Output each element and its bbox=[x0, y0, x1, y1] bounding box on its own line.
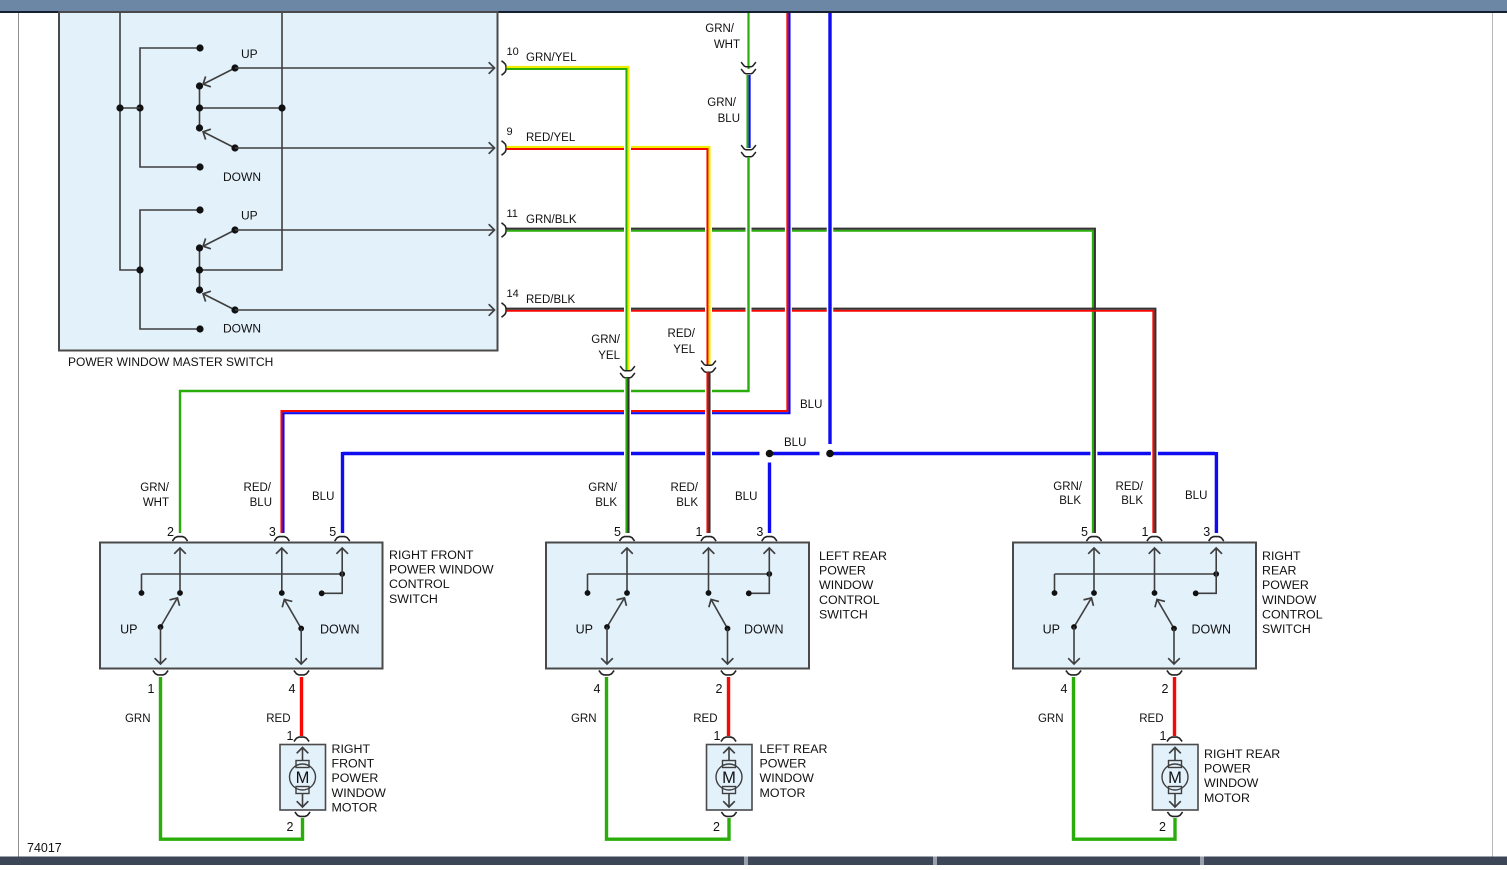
wire: internal bus bbox=[142, 573, 343, 575]
node: UP arm pivot bbox=[604, 624, 610, 630]
bottom status bar bbox=[0, 857, 1507, 866]
svg-text:UP: UP bbox=[241, 209, 258, 223]
svg-text:DOWN: DOWN bbox=[223, 170, 261, 184]
node: pin 1 pole bbox=[706, 590, 712, 596]
connector: top pin 1 bbox=[701, 537, 716, 541]
pin 9 connector on master switch bbox=[502, 141, 507, 155]
wire: UP pivot down arrow to bottom pin bbox=[160, 627, 162, 664]
bottom bar separator 3 bbox=[1200, 857, 1204, 866]
svg-text:WINDOW: WINDOW bbox=[819, 578, 874, 592]
motor symbol: armature circle M bbox=[716, 764, 742, 790]
wire RED from switch pin to right rear power window motor pin 1 bbox=[1173, 677, 1176, 736]
svg-text:14: 14 bbox=[507, 288, 519, 300]
wire: section 1 common to tall bus bbox=[200, 107, 282, 109]
svg-text:1: 1 bbox=[1142, 525, 1149, 539]
node: pin 5 pole bbox=[624, 590, 630, 596]
svg-text:POWER WINDOW: POWER WINDOW bbox=[389, 563, 494, 577]
connector: top pin 5 bbox=[1086, 537, 1101, 541]
svg-text:POWER: POWER bbox=[332, 771, 379, 785]
wire: section 2 pole column bbox=[199, 248, 201, 290]
node: bus left contact bbox=[139, 590, 145, 596]
node: pin 5 pole bbox=[1091, 590, 1097, 596]
right rear power window motor box bbox=[1153, 745, 1199, 811]
wire: pin 5 up arrow bbox=[341, 549, 343, 575]
svg-text:4: 4 bbox=[289, 682, 296, 696]
inline connector C200 on GRN/YEL wire bbox=[620, 366, 635, 371]
node: section 1 DOWN fixed contact bbox=[196, 163, 203, 170]
motor symbol: upper lead with arrow bbox=[728, 748, 730, 761]
switch arm DOWN bbox=[1157, 600, 1174, 629]
node: section 2 lower pole bbox=[196, 286, 203, 293]
svg-text:CONTROL: CONTROL bbox=[819, 593, 880, 607]
svg-text:GRN: GRN bbox=[571, 713, 597, 725]
wire RED/BLK from master pin 14 to right rear switch pin 1 bbox=[1151, 440, 1158, 470]
svg-text:UP: UP bbox=[576, 623, 593, 637]
connector: top pin 2 bbox=[172, 537, 187, 541]
node: BLU junction right bbox=[826, 450, 834, 458]
svg-text:UP: UP bbox=[120, 623, 137, 637]
node: section 2 common pole bbox=[196, 266, 203, 273]
wire GRN from switch pin to left rear power window motor pin 2 bbox=[607, 677, 730, 839]
svg-text:2: 2 bbox=[1162, 682, 1169, 696]
svg-text:RED/: RED/ bbox=[668, 328, 696, 340]
motor symbol: lower lead with arrow bbox=[302, 794, 304, 807]
svg-text:5: 5 bbox=[614, 525, 621, 539]
wire: bus left stub bbox=[587, 574, 589, 592]
node: bus right corner bbox=[339, 571, 345, 577]
wire: pin 3 up arrow bbox=[1215, 549, 1217, 575]
svg-text:5: 5 bbox=[1081, 525, 1088, 539]
connector: bottom pin 4 bbox=[1066, 671, 1081, 675]
node: section 1 upper pole bbox=[196, 82, 203, 89]
connector: top pin 3 bbox=[1209, 537, 1224, 541]
wire RED/BLU from top across to right front switch pin 3 bbox=[785, 215, 792, 320]
right front power window motor box bbox=[280, 745, 326, 811]
bottom bar separator 2 bbox=[933, 857, 937, 866]
pin 11 connector on master switch bbox=[502, 223, 507, 237]
connector: top pin 5 bbox=[335, 537, 350, 541]
connector: motor pin 1 bbox=[294, 737, 309, 741]
wire RED/BLK from inline connector to left rear switch pin 1 bbox=[706, 372, 708, 533]
svg-text:POWER WINDOW MASTER SWITCH: POWER WINDOW MASTER SWITCH bbox=[68, 355, 273, 369]
motor symbol: lower lead with arrow bbox=[728, 794, 730, 807]
wire: section 2 upper output to pin bbox=[235, 229, 494, 231]
right page border bbox=[1492, 13, 1494, 857]
connector: top pin 3 bbox=[274, 537, 289, 541]
connector: bottom pin 2 bbox=[1167, 671, 1182, 675]
wire: master switch internal left vertical bus bbox=[120, 13, 140, 270]
svg-text:RIGHT FRONT: RIGHT FRONT bbox=[389, 548, 474, 562]
pin 10 connector on master switch bbox=[502, 61, 507, 75]
svg-text:1: 1 bbox=[287, 729, 294, 743]
node: tall bus junction bbox=[278, 104, 285, 111]
connector: motor pin 1 bbox=[1167, 737, 1182, 741]
node: section 1 UP fixed contact bbox=[196, 44, 203, 51]
switch arm UP bbox=[607, 598, 624, 627]
svg-text:2: 2 bbox=[167, 525, 174, 539]
svg-text:GRN/: GRN/ bbox=[707, 97, 737, 109]
wire: pin 5 line with up arrow bbox=[626, 549, 628, 594]
right front power window control switch box bbox=[100, 543, 383, 669]
node: DOWN arm pivot bbox=[1171, 626, 1177, 632]
wire: section 1 bracket to left bus bbox=[120, 107, 140, 109]
motor symbol: armature circle M bbox=[1162, 764, 1188, 790]
svg-text:BLU: BLU bbox=[800, 399, 822, 411]
inline connector C202 on GRN/WHT wire bbox=[741, 62, 756, 67]
wire: UP pivot down arrow to bottom pin bbox=[606, 627, 608, 664]
master switch section 2 contact bracket bbox=[140, 210, 200, 329]
svg-text:GRN/: GRN/ bbox=[705, 23, 735, 35]
motor symbol: lower lead with arrow bbox=[1174, 794, 1176, 807]
wire BLU drop to right rear switch pin 3 bbox=[1215, 452, 1218, 533]
node: left bus junction bbox=[116, 104, 123, 111]
node: BLU junction left bbox=[766, 450, 774, 458]
top toolbar bar bbox=[0, 0, 1507, 12]
svg-text:LEFT REAR: LEFT REAR bbox=[760, 742, 828, 756]
svg-text:BLU: BLU bbox=[312, 491, 334, 503]
node: section 2 bracket junction bbox=[136, 266, 143, 273]
wire: DOWN pivot down arrow to bottom pin bbox=[1173, 629, 1175, 664]
svg-text:74017: 74017 bbox=[27, 841, 62, 855]
svg-text:2: 2 bbox=[287, 820, 294, 834]
wire: pin 3 elbow bbox=[1197, 574, 1217, 593]
svg-text:POWER: POWER bbox=[819, 564, 866, 578]
motor symbol: armature circle M bbox=[290, 764, 316, 790]
svg-text:GRN/: GRN/ bbox=[588, 482, 618, 494]
wire: UP pivot down arrow to bottom pin bbox=[1073, 627, 1075, 664]
node: pin 2 pole bbox=[177, 590, 183, 596]
left page border bbox=[18, 13, 20, 857]
connector: bottom pin 4 bbox=[294, 671, 309, 675]
svg-text:CONTROL: CONTROL bbox=[1262, 607, 1323, 621]
svg-text:BLU: BLU bbox=[1185, 490, 1207, 502]
left rear power window control switch box bbox=[546, 543, 809, 669]
svg-text:2: 2 bbox=[716, 682, 723, 696]
svg-text:SWITCH: SWITCH bbox=[819, 607, 868, 621]
wire: bus left stub bbox=[141, 574, 143, 592]
svg-text:RED: RED bbox=[1139, 713, 1163, 725]
wire: pin 3 up arrow bbox=[768, 549, 770, 575]
svg-text:1: 1 bbox=[714, 729, 721, 743]
connector: motor pin 2 bbox=[1167, 812, 1182, 816]
svg-text:1: 1 bbox=[1160, 729, 1167, 743]
svg-text:3: 3 bbox=[1203, 525, 1210, 539]
switch arm DOWN bbox=[711, 600, 727, 629]
connector: motor pin 2 bbox=[295, 812, 310, 816]
svg-text:UP: UP bbox=[241, 47, 258, 61]
node: pin 1 pole bbox=[1152, 590, 1158, 596]
node: pin 5 fixed contact bbox=[319, 590, 325, 596]
svg-text:RED/YEL: RED/YEL bbox=[526, 132, 576, 144]
wire GRN from switch pin to right rear power window motor pin 2 bbox=[1074, 677, 1176, 839]
svg-text:1: 1 bbox=[148, 682, 155, 696]
svg-text:GRN/BLK: GRN/BLK bbox=[526, 214, 577, 226]
connector: top pin 1 bbox=[1147, 537, 1162, 541]
svg-text:3: 3 bbox=[756, 525, 763, 539]
node: UP arm pivot bbox=[158, 624, 164, 630]
svg-text:BLK: BLK bbox=[1059, 495, 1081, 507]
connector: top pin 3 bbox=[762, 537, 777, 541]
node: DOWN arm pivot bbox=[725, 626, 731, 632]
node: pin 3 fixed contact bbox=[1193, 590, 1199, 596]
wire: pin 1 line with up arrow bbox=[708, 549, 710, 594]
wire: pin 2 line with up arrow bbox=[179, 549, 181, 594]
svg-text:WHT: WHT bbox=[714, 39, 740, 51]
node: section 2 lower output contact bbox=[231, 306, 238, 313]
svg-text:WINDOW: WINDOW bbox=[1204, 776, 1259, 790]
node: bus right corner bbox=[766, 571, 772, 577]
node: section 2 UP fixed contact bbox=[196, 206, 203, 213]
connector: bottom pin 2 bbox=[721, 671, 736, 675]
svg-text:POWER: POWER bbox=[1204, 762, 1251, 776]
wire GRN/BLK from master pin 11 to right rear switch pin 5 bbox=[1090, 440, 1097, 470]
svg-text:LEFT REAR: LEFT REAR bbox=[819, 549, 887, 563]
wire: internal bus bbox=[1055, 573, 1217, 575]
wire: master switch internal tall vertical bus bbox=[200, 13, 282, 270]
node: section 2 upper output contact bbox=[231, 226, 238, 233]
svg-text:M: M bbox=[1168, 769, 1182, 787]
connector: top pin 5 bbox=[619, 537, 634, 541]
svg-text:10: 10 bbox=[507, 46, 519, 58]
svg-text:SWITCH: SWITCH bbox=[1262, 622, 1311, 636]
left rear power window motor box bbox=[707, 745, 753, 811]
motor symbol: upper lead with arrow bbox=[302, 748, 304, 761]
connector: motor pin 1 bbox=[721, 737, 736, 741]
wire RED/YEL from master pin 9 down to inline connector bbox=[705, 215, 712, 320]
svg-text:SWITCH: SWITCH bbox=[389, 592, 438, 606]
svg-text:RED: RED bbox=[266, 713, 290, 725]
wire: pin 3 elbow bbox=[750, 574, 770, 593]
wire: DOWN pivot down arrow to bottom pin bbox=[300, 629, 302, 664]
wire GRN/YEL from master pin 10 down to inline connector bbox=[624, 140, 631, 156]
svg-text:FRONT: FRONT bbox=[332, 757, 375, 771]
svg-text:YEL: YEL bbox=[673, 344, 695, 356]
power window master switch box U1 bbox=[59, 12, 498, 351]
svg-text:4: 4 bbox=[1061, 682, 1068, 696]
wire: DOWN pivot down arrow to bottom pin bbox=[727, 629, 729, 664]
switch arm section 2 lower (to output) bbox=[204, 294, 236, 310]
wire GRN from switch pin to right front power window motor pin 2 bbox=[161, 677, 303, 839]
svg-text:BLK: BLK bbox=[595, 497, 617, 509]
bottom bar separator 1 bbox=[744, 857, 748, 866]
switch arm section 1 lower (to output) bbox=[204, 132, 236, 148]
switch arm UP bbox=[1074, 598, 1091, 627]
svg-text:9: 9 bbox=[507, 126, 513, 138]
svg-text:POWER: POWER bbox=[760, 757, 807, 771]
svg-text:DOWN: DOWN bbox=[744, 623, 784, 637]
node: pin 3 fixed contact bbox=[746, 590, 752, 596]
wire GRN continues down and across to right front pin 2 bbox=[180, 157, 749, 533]
svg-text:WINDOW: WINDOW bbox=[332, 786, 387, 800]
svg-text:DOWN: DOWN bbox=[1192, 623, 1232, 637]
svg-text:BLU: BLU bbox=[250, 497, 272, 509]
wire: bus left stub bbox=[1054, 574, 1056, 592]
node: bus right corner bbox=[1213, 571, 1219, 577]
svg-text:MOTOR: MOTOR bbox=[760, 786, 806, 800]
wire: section 2 lower output to pin bbox=[235, 309, 494, 311]
svg-text:5: 5 bbox=[329, 525, 336, 539]
svg-text:11: 11 bbox=[507, 208, 518, 220]
wire: pin 1 line with up arrow bbox=[1154, 549, 1156, 594]
svg-text:YEL: YEL bbox=[598, 350, 620, 362]
wire RED from switch pin to right front power window motor pin 1 bbox=[300, 677, 303, 736]
svg-text:4: 4 bbox=[594, 682, 601, 696]
motor symbol: upper lead with arrow bbox=[1174, 748, 1176, 761]
svg-text:RED/: RED/ bbox=[244, 482, 272, 494]
svg-text:DOWN: DOWN bbox=[223, 322, 261, 336]
wire GRN/BLU segment between connectors bbox=[746, 75, 748, 148]
svg-text:2: 2 bbox=[713, 820, 720, 834]
svg-text:M: M bbox=[296, 769, 310, 787]
wire RED from switch pin to left rear power window motor pin 1 bbox=[727, 677, 730, 736]
wire BLU vertical from top to junction bbox=[827, 215, 834, 320]
pin 14 connector on master switch bbox=[502, 303, 507, 317]
switch arm section 1 upper (to output) bbox=[204, 68, 236, 84]
node: bus left contact bbox=[585, 590, 591, 596]
svg-text:RIGHT REAR: RIGHT REAR bbox=[1204, 747, 1280, 761]
svg-text:GRN/: GRN/ bbox=[1053, 481, 1083, 493]
node: bus left contact bbox=[1052, 590, 1058, 596]
svg-text:GRN/YEL: GRN/YEL bbox=[526, 52, 577, 64]
motor symbol: upper brush bbox=[723, 761, 736, 768]
svg-text:BLK: BLK bbox=[676, 497, 698, 509]
motor symbol: lower brush bbox=[723, 787, 736, 794]
switch arm DOWN bbox=[285, 600, 302, 629]
svg-text:UP: UP bbox=[1043, 623, 1060, 637]
svg-text:POWER: POWER bbox=[1262, 578, 1309, 592]
wire BLU drop to right front switch pin 5 bbox=[341, 452, 344, 533]
svg-text:RED/: RED/ bbox=[1116, 481, 1144, 493]
svg-text:BLU: BLU bbox=[784, 437, 806, 449]
motor symbol: lower brush bbox=[1169, 787, 1182, 794]
node: section 1 common pole bbox=[196, 104, 203, 111]
wire BLU drop to left rear switch pin 3 bbox=[768, 463, 771, 534]
node: section 2 upper pole bbox=[196, 244, 203, 251]
svg-text:GRN: GRN bbox=[1038, 713, 1064, 725]
wire: pin 5 line with up arrow bbox=[1093, 549, 1095, 594]
svg-text:1: 1 bbox=[696, 525, 703, 539]
svg-text:GRN/: GRN/ bbox=[140, 482, 170, 494]
node: section 1 bracket junction bbox=[136, 104, 143, 111]
master switch section 1 contact bracket bbox=[140, 48, 200, 167]
connector: bottom pin 1 bbox=[153, 671, 168, 675]
svg-text:BLK: BLK bbox=[1121, 495, 1143, 507]
node: UP arm pivot bbox=[1071, 624, 1077, 630]
node: section 1 upper output contact bbox=[231, 64, 238, 71]
connector: bottom pin 4 bbox=[599, 671, 614, 675]
wire BLU horizontal bus between switches bbox=[343, 452, 760, 455]
svg-text:GRN/: GRN/ bbox=[591, 334, 621, 346]
svg-text:GRN: GRN bbox=[125, 713, 151, 725]
wire GRN/BLK from inline connector to left rear switch pin 5 bbox=[625, 378, 627, 534]
svg-text:MOTOR: MOTOR bbox=[332, 800, 378, 814]
svg-text:RED/: RED/ bbox=[671, 482, 699, 494]
wire: pin 3 line with up arrow bbox=[281, 549, 283, 594]
svg-text:MOTOR: MOTOR bbox=[1204, 791, 1250, 805]
motor symbol: upper brush bbox=[1169, 761, 1182, 768]
node: pin 3 pole bbox=[279, 590, 285, 596]
svg-text:M: M bbox=[722, 769, 736, 787]
svg-text:2: 2 bbox=[1159, 820, 1166, 834]
inline connector C201 on RED/YEL wire bbox=[701, 361, 716, 366]
switch arm UP bbox=[161, 598, 178, 627]
svg-text:3: 3 bbox=[269, 525, 276, 539]
wire: section 1 upper output to pin bbox=[235, 67, 494, 69]
wire: pin 5 elbow bbox=[323, 574, 343, 593]
svg-text:CONTROL: CONTROL bbox=[389, 577, 450, 591]
right rear power window control switch box bbox=[1013, 543, 1256, 669]
motor symbol: lower brush bbox=[296, 787, 309, 794]
wire: internal bus bbox=[588, 573, 770, 575]
wire: section 1 lower output to pin bbox=[235, 147, 494, 149]
inline connector C203 on GRN/BLU wire bbox=[741, 145, 756, 150]
svg-text:WINDOW: WINDOW bbox=[1262, 593, 1317, 607]
node: section 1 lower output contact bbox=[231, 144, 238, 151]
svg-text:DOWN: DOWN bbox=[320, 623, 360, 637]
svg-text:BLU: BLU bbox=[735, 491, 757, 503]
svg-text:RED/BLK: RED/BLK bbox=[526, 294, 576, 306]
svg-text:BLU: BLU bbox=[718, 113, 740, 125]
svg-text:WHT: WHT bbox=[143, 497, 169, 509]
svg-text:RIGHT: RIGHT bbox=[1262, 549, 1301, 563]
switch arm section 2 upper (to output) bbox=[204, 230, 236, 246]
svg-text:REAR: REAR bbox=[1262, 564, 1296, 578]
connector: motor pin 2 bbox=[721, 812, 736, 816]
node: section 2 DOWN fixed contact bbox=[196, 325, 203, 332]
wire: section 1 pole column bbox=[199, 86, 201, 128]
svg-text:RED: RED bbox=[693, 713, 717, 725]
motor symbol: upper brush bbox=[296, 761, 309, 768]
svg-text:RIGHT: RIGHT bbox=[332, 742, 371, 756]
node: DOWN arm pivot bbox=[298, 626, 304, 632]
svg-text:WINDOW: WINDOW bbox=[760, 771, 815, 785]
node: section 1 lower pole bbox=[196, 124, 203, 131]
wire GRN/WHT from top, becomes GRN wire to right front switch pin 2 bbox=[746, 215, 752, 320]
